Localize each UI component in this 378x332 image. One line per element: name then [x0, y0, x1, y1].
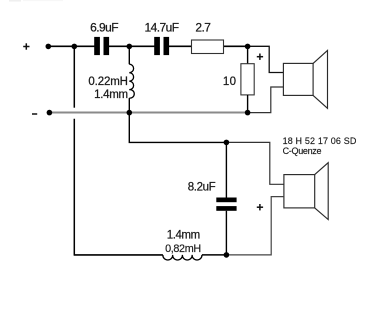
label woofer plus: [257, 204, 263, 210]
wire woofer return: [226, 197, 284, 255]
wire top rail left: [48, 45, 94, 47]
wire left vertical lower: [73, 119, 75, 256]
resistor R2 10: [241, 64, 254, 95]
junction dot node W: [224, 140, 230, 146]
svg-text:0.22mH: 0.22mH: [88, 76, 127, 88]
svg-text:14.7uF: 14.7uF: [145, 21, 179, 35]
wire bottom rail left: [74, 254, 163, 256]
svg-text:1.4mm: 1.4mm: [167, 230, 200, 242]
terminal + label: [23, 43, 29, 49]
speaker woofer: [284, 163, 328, 220]
junction dot L1 bottom: [127, 110, 133, 116]
wire C3 bottom lead: [225, 211, 227, 255]
svg-text:0,82mH: 0,82mH: [165, 243, 201, 255]
svg-text:C-Quenze: C-Quenze: [283, 146, 322, 156]
svg-text:6.9uF: 6.9uF: [90, 21, 118, 35]
inductor L1 0.22mH: [129, 64, 134, 98]
terminal - label: [32, 113, 37, 115]
svg-text:2.7: 2.7: [195, 21, 211, 35]
wire node W to woofer plus: [226, 142, 284, 184]
svg-text:1.4mm: 1.4mm: [94, 89, 128, 101]
wire L1 bottom lead: [128, 98, 130, 113]
wire C2 to R1: [169, 45, 192, 47]
wire bottom rail mid: [202, 254, 227, 256]
junction dot bottom rail: [224, 252, 230, 258]
svg-text:8.2uF: 8.2uF: [188, 182, 216, 194]
capacitor C1 6.9uF: [94, 37, 109, 55]
svg-text:18 H 52 17 06 SD: 18 H 52 17 06 SD: [283, 136, 357, 146]
top edge artifact: [9, 0, 63, 2]
label tweeter plus: [257, 54, 263, 60]
svg-text:10: 10: [223, 76, 236, 88]
inductor L2 0.82mH: [163, 255, 202, 260]
speaker tweeter: [283, 50, 327, 108]
wire woofer feed horizontal: [129, 113, 226, 143]
junction dot tweeter return: [245, 110, 251, 116]
capacitor C2 14.7uF: [154, 37, 169, 55]
junction dot input plus: [46, 44, 52, 50]
wire left vertical upper: [73, 46, 75, 107]
junction dot left branch: [72, 44, 78, 50]
capacitor C3 8.2uF: [216, 198, 236, 211]
wire R2 bottom lead: [247, 95, 249, 113]
junction dot node A: [127, 44, 133, 50]
wire R1 to node T: [224, 45, 249, 47]
wire tweeter return: [248, 87, 284, 113]
wire L1 top lead: [128, 46, 130, 64]
wire C3 top lead: [225, 142, 227, 197]
resistor R1 2.7: [192, 40, 224, 54]
wire between C1 and C2: [109, 45, 155, 47]
junction dot input minus: [47, 110, 53, 116]
wire node T to tweeter plus: [248, 46, 284, 72]
wire R2 top lead: [247, 46, 249, 63]
wire minus rail: [49, 112, 247, 114]
junction dot node T: [245, 44, 251, 50]
